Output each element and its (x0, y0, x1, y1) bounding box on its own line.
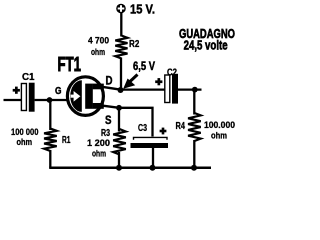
svg-text:100.000: 100.000 (204, 120, 235, 130)
svg-text:6,5 V: 6,5 V (133, 59, 155, 73)
svg-text:C3: C3 (138, 123, 147, 134)
power terminal +15V (116, 4, 126, 14)
svg-text:100 000: 100 000 (11, 127, 39, 137)
ground rail (49, 167, 211, 170)
transistor FT1 body circle (67, 77, 103, 116)
voltage pointer arrow (123, 75, 137, 89)
wire drain lead (102, 87, 120, 90)
transistor FT1 channel bar (85, 84, 93, 109)
svg-text:D: D (106, 76, 113, 88)
capacitor C1 (21, 83, 34, 112)
wire supply to R2 (120, 12, 122, 37)
node drain junction (118, 87, 124, 93)
svg-text:S: S (105, 115, 112, 127)
transistor FT1 gate arrow (white) (71, 91, 81, 102)
node rail R3 (116, 165, 122, 171)
svg-text:R2: R2 (129, 39, 140, 50)
svg-text:ohm: ohm (17, 137, 33, 147)
wire R2 to drain node (120, 58, 122, 91)
svg-text:24,5 volte: 24,5 volte (184, 38, 228, 52)
node rail R4 (191, 165, 197, 171)
resistor R3 (118, 108, 120, 132)
node source junction (116, 105, 122, 111)
svg-text:ohm: ohm (91, 47, 105, 57)
svg-text:C1: C1 (22, 72, 35, 83)
wire drain node to C2 (121, 88, 166, 90)
node rail C3 (150, 165, 156, 171)
svg-text:G: G (55, 85, 62, 97)
wire source to C3 (119, 108, 153, 137)
wire C3 to rail (152, 148, 154, 168)
svg-text:C2: C2 (167, 68, 177, 79)
transistor FT1 source arm (93, 103, 104, 109)
resistor R4 (193, 90, 195, 115)
node gate junction (47, 97, 53, 103)
node output junction (192, 87, 198, 93)
transistor FT1 drain arm (93, 84, 104, 90)
resistor R1 (49, 100, 51, 130)
svg-text:R1: R1 (62, 135, 71, 146)
svg-text:ohm: ohm (211, 131, 227, 141)
capacitor C2 (165, 74, 178, 104)
polarity plus C3 (160, 130, 167, 133)
svg-text:15 V.: 15 V. (130, 2, 155, 17)
svg-text:R4: R4 (176, 121, 186, 132)
wire C2 to output node (178, 88, 202, 90)
capacitor C3 (131, 137, 169, 148)
wire source lead (102, 106, 119, 108)
polarity plus C1 (13, 89, 20, 92)
resistor R2 (115, 36, 127, 59)
svg-text:4 700: 4 700 (88, 35, 109, 45)
transistor FT1 shaded left segment (70, 80, 82, 112)
polarity plus C2 (155, 80, 162, 83)
svg-text:FT1: FT1 (58, 54, 82, 76)
wire C1 to gate (35, 99, 70, 101)
wire input to C1 (4, 99, 22, 101)
svg-text:1 200: 1 200 (87, 138, 110, 148)
svg-text:ohm: ohm (92, 149, 106, 159)
